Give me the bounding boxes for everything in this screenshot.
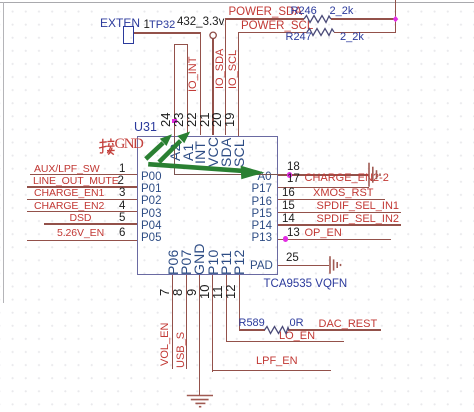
pin 6 wire xyxy=(27,240,137,241)
pin 4 wire xyxy=(27,211,137,212)
pin number 1 xyxy=(119,164,125,176)
junction dot pin 24 xyxy=(172,119,177,124)
pin number 18 xyxy=(287,162,300,174)
POWER_SDA wire right segment xyxy=(331,18,397,19)
pin number 25 xyxy=(286,253,299,265)
bottom pin 8 wire vertical xyxy=(186,275,187,369)
designator R246 xyxy=(291,6,317,17)
hanzi 接 (connect) glyph strokes xyxy=(99,138,115,154)
pin name P16 xyxy=(252,197,272,209)
pin name A1 (rotated) xyxy=(183,143,194,161)
junction diamond on POWER_SDA xyxy=(393,16,399,22)
pin name SDA (rotated) xyxy=(221,137,232,166)
pin 25 wire (PAD) xyxy=(278,265,330,266)
value 2_2k of R247 xyxy=(340,32,364,43)
net label LPF_EN xyxy=(256,356,298,367)
pin number 5 xyxy=(119,213,125,225)
net label 5.26V_EN xyxy=(57,228,104,239)
pin number 20 (rotated) xyxy=(211,113,222,127)
DAC_REST wire right segment xyxy=(288,329,381,330)
pin name P00 xyxy=(141,172,161,184)
pin number 9 (rotated) xyxy=(186,289,197,296)
green arrow to A2 xyxy=(144,134,172,160)
pin number 11 (rotated) xyxy=(212,285,223,299)
wire joining A2-A1 top xyxy=(174,44,188,45)
resistor R247 zigzag xyxy=(307,29,334,36)
POWER_SDA wire left segment xyxy=(225,18,304,19)
pin name P10 (rotated) xyxy=(208,249,219,275)
pin number 24 (rotated) xyxy=(160,113,171,127)
resistor R246 zigzag xyxy=(304,16,331,23)
net label POWER_SDA xyxy=(229,7,303,19)
value 2_2k of R246 xyxy=(330,6,354,17)
pin number 3 xyxy=(119,188,125,200)
pin 17 wire xyxy=(278,187,370,188)
net label OP_EN xyxy=(305,228,342,239)
pin number 19 (rotated) xyxy=(224,113,235,127)
junction dot pin 13 xyxy=(283,236,289,242)
pin 2 wire xyxy=(27,186,137,187)
ground symbol (sideways) at pin 18 xyxy=(369,163,380,187)
pin name P03 xyxy=(141,209,161,221)
net label VOL_EN (rotated) xyxy=(160,322,171,365)
wire inside IC from A2 column down to A0 row xyxy=(174,136,175,176)
ground symbol (sideways) at pin 25 PAD xyxy=(330,256,341,274)
pin name P12 (rotated) xyxy=(234,249,245,275)
pin number 22 (rotated) xyxy=(186,113,197,127)
pin 5 wire xyxy=(44,223,137,224)
pin 14 wire xyxy=(278,224,402,225)
bottom pin 9 wire vertical (to GND) xyxy=(199,275,200,396)
pin name P17 xyxy=(252,184,272,196)
resistor R589 zigzag xyxy=(265,327,290,334)
net label LINE_OUT_MUTE xyxy=(33,176,119,187)
ground symbol at bottom of GND pin 9 xyxy=(187,396,213,407)
pin 18 wire xyxy=(278,174,370,175)
pin number 23 (rotated) xyxy=(173,113,184,127)
pin name P11 (rotated) xyxy=(221,250,232,274)
POWER_SCL wire left segment xyxy=(238,32,307,33)
power port circle 432_3.3v xyxy=(210,32,216,38)
power net 432_3.3v xyxy=(177,17,224,29)
LO_EN wire horizontal xyxy=(226,341,344,342)
testpoint pin number 1 xyxy=(144,20,150,32)
pin name A0 xyxy=(258,172,272,184)
pin number 2 xyxy=(118,176,124,188)
pin number 4 xyxy=(119,201,125,213)
annotation text 接GND xyxy=(115,137,143,152)
sheet border top xyxy=(0,2,474,3)
pin number 17 xyxy=(287,174,300,186)
pin name VCC (rotated) xyxy=(208,136,219,166)
pin name P05 xyxy=(141,233,161,245)
junction dot pin 18 xyxy=(287,172,293,178)
bottom pin 12 wire vertical xyxy=(239,275,240,330)
test point box EXTEN xyxy=(123,26,134,44)
net label CHARGE_EN2 xyxy=(34,201,104,212)
pin name P15 xyxy=(252,209,272,221)
big green arrow to A0 xyxy=(148,162,265,179)
top: EXTEN label xyxy=(100,17,140,29)
pin 16 wire xyxy=(278,199,386,200)
DAC_REST wire left segment xyxy=(239,329,265,330)
pin name P14 xyxy=(252,221,272,233)
net label IO_SDA (rotated) xyxy=(215,49,225,89)
designator R589 xyxy=(239,318,265,329)
pin 3 wire xyxy=(27,199,137,200)
designator U31 xyxy=(134,121,157,134)
net label USB_S (rotated) xyxy=(176,332,187,368)
value 0R of R589 xyxy=(290,318,304,329)
pin 23 wire vertical (A1) xyxy=(187,44,188,136)
pin 13 wire xyxy=(278,239,392,240)
pin 15 wire xyxy=(278,212,402,213)
pin number 21 (rotated) xyxy=(199,113,210,127)
pin number 10 (rotated) xyxy=(199,284,210,298)
pin 24 wire vertical (A2) xyxy=(174,44,175,136)
vertical wire at right joining SDA/SCL xyxy=(395,0,396,32)
net label DSD xyxy=(70,213,92,224)
net label IO_INT (rotated) xyxy=(188,57,198,92)
POWER_SCL wire right segment xyxy=(334,32,396,33)
net label LO_EN xyxy=(279,331,315,342)
net label IO_SCL (rotated) xyxy=(228,50,238,89)
pin 19 wire vertical (SCL) xyxy=(238,32,239,136)
pin number 8 (rotated) xyxy=(172,289,183,296)
pin name P01 xyxy=(141,184,161,196)
bottom pin 7 wire vertical xyxy=(172,275,173,369)
pin name PAD xyxy=(250,261,273,273)
pin number 16 xyxy=(282,188,295,200)
sheet border left xyxy=(3,2,4,303)
pin number 14 xyxy=(282,214,295,226)
pin number 7 (rotated) xyxy=(159,289,170,296)
pin number 15 xyxy=(282,201,295,213)
net label CHARGE_EN1 xyxy=(34,188,104,199)
pin 20 wire vertical (SDA) xyxy=(225,18,226,135)
net label SPDIF_SEL_IN1 xyxy=(317,201,400,212)
pin name P04 xyxy=(141,221,161,233)
net label CHARGE_EN2-2 xyxy=(305,173,389,184)
bottom pin 11 wire vertical xyxy=(226,275,227,342)
LPF_EN wire horizontal xyxy=(212,370,331,371)
pin name P02 xyxy=(141,196,161,208)
pin number 6 xyxy=(119,228,125,240)
designator TP32 xyxy=(149,20,175,31)
pin name P07 (rotated) xyxy=(181,249,192,275)
pin number 13 xyxy=(287,228,300,240)
pin name SCL (rotated) xyxy=(234,139,245,167)
pin name P13 xyxy=(252,233,272,245)
net label XMOS_RST xyxy=(313,188,374,199)
pin 21 wire vertical (VCC) xyxy=(212,39,213,136)
pin 22 wire vertical (INT) xyxy=(200,32,201,135)
pin 1 wire xyxy=(30,174,137,175)
bottom pin 10 wire vertical xyxy=(212,275,213,372)
net label AUX/LPF_SW xyxy=(34,164,100,175)
pin name GND (rotated) xyxy=(194,243,205,275)
wire EXTEN to INT pin xyxy=(134,32,200,33)
pin name INT (rotated) xyxy=(195,141,206,164)
net label POWER_SCL xyxy=(241,21,313,33)
net label DAC_REST xyxy=(319,319,378,330)
net label SPDIF_SEL_IN2 xyxy=(317,214,400,225)
pin name A2 (rotated) xyxy=(170,143,181,161)
green arrow to A1 xyxy=(157,132,190,164)
part type TCA9535 VQFN xyxy=(264,279,348,291)
op-expander U31 body xyxy=(137,136,278,276)
designator R247 xyxy=(286,32,312,43)
pin number 12 (rotated) xyxy=(225,284,236,298)
pin name P06 (rotated) xyxy=(168,249,179,275)
